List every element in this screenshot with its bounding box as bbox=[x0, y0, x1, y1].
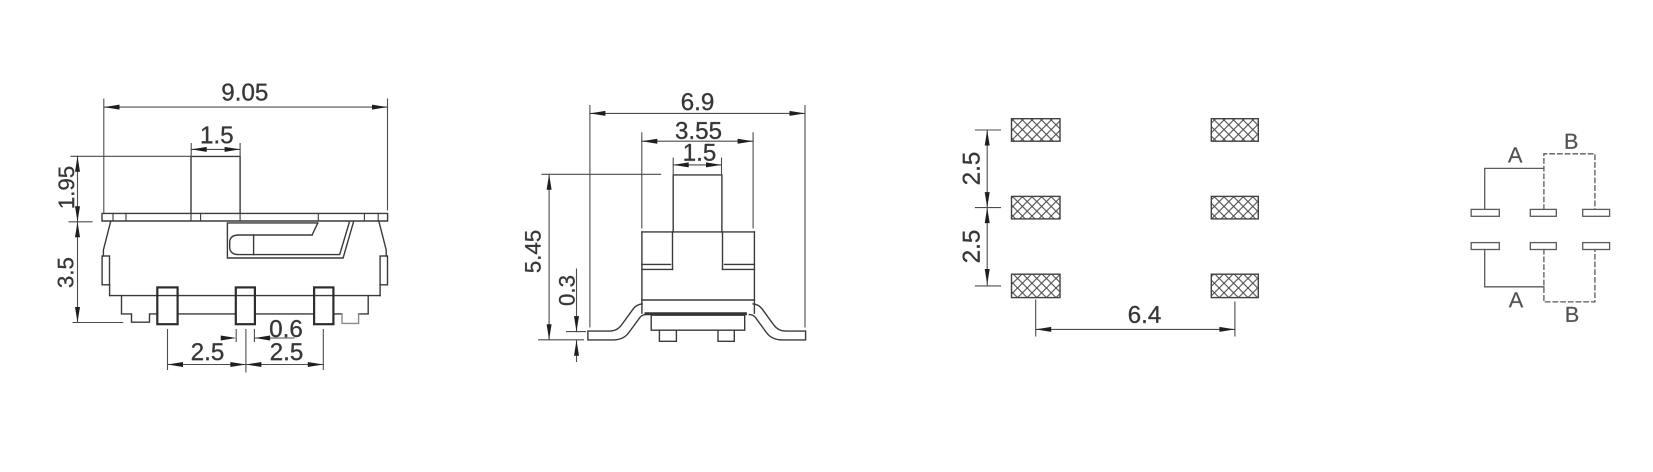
thick base line bbox=[646, 312, 745, 315]
body bottom line bbox=[110, 295, 381, 297]
dim 0.3 (vertical) bbox=[567, 269, 586, 362]
base block bbox=[651, 315, 745, 330]
base foot left bbox=[659, 330, 676, 341]
label B top bbox=[1566, 134, 1578, 149]
knob (front view actuator) bbox=[191, 156, 240, 213]
body top line bbox=[642, 231, 755, 233]
wire A bottom (solid) bbox=[1485, 250, 1544, 287]
knob continuation inside body bbox=[673, 232, 723, 270]
label B bottom bbox=[1567, 307, 1579, 322]
dim 2.5 right bbox=[246, 362, 323, 367]
base foot right bbox=[718, 330, 734, 341]
dim 2.5 left bbox=[168, 330, 324, 372]
terminal 5 (bottom-middle) bbox=[1530, 243, 1556, 250]
pad 5 (mid-right) bbox=[1211, 196, 1258, 219]
actuator slot window outer bbox=[227, 222, 353, 258]
dim 2.5 upper (vertical) bbox=[975, 130, 1000, 286]
dim 1.95 (vertical) bbox=[69, 156, 191, 222]
label A bottom bbox=[1509, 292, 1523, 307]
pin 1 bbox=[157, 287, 177, 324]
gull wing left bbox=[588, 304, 646, 340]
wire B bottom (dashed) bbox=[1544, 250, 1595, 302]
dim 6.9 bbox=[590, 106, 805, 327]
dim 3.55 bbox=[642, 133, 753, 228]
body right edge bbox=[379, 221, 388, 296]
terminal 6 (bottom-right) bbox=[1583, 243, 1610, 250]
dim 3.5 (vertical) bbox=[73, 222, 123, 323]
body sides bbox=[642, 232, 755, 313]
top flange bbox=[102, 213, 388, 221]
dim 0.6 bbox=[221, 330, 294, 342]
dim 1.5 (fig1) bbox=[191, 144, 240, 157]
wire B top (dashed) bbox=[1544, 154, 1595, 210]
pad 1 (top-left) bbox=[1012, 119, 1061, 142]
label A top bbox=[1508, 147, 1522, 162]
dim 5.45 (vertical) bbox=[539, 174, 661, 339]
knob (side view actuator) bbox=[673, 175, 722, 232]
dim 2.5 lower (vertical) bbox=[985, 208, 990, 285]
dim 1.5 (fig2) bbox=[673, 158, 721, 175]
ledge lines left bbox=[642, 264, 673, 269]
seam line bbox=[642, 299, 755, 301]
dim 6.4 bbox=[1036, 300, 1235, 336]
pin 3 bbox=[314, 287, 333, 324]
pad 4 (top-right) bbox=[1211, 119, 1258, 142]
base profile with feet bbox=[122, 296, 369, 323]
terminal 3 (top-right) bbox=[1583, 209, 1610, 216]
knob shaft line in slot bbox=[253, 235, 255, 255]
terminal 1 (top-left) bbox=[1471, 209, 1499, 216]
pad 6 (bottom-right) bbox=[1211, 274, 1258, 297]
pad 2 (mid-left) bbox=[1012, 196, 1061, 219]
body left edge bbox=[102, 221, 111, 296]
pin 2 bbox=[236, 287, 255, 324]
gull wing right bbox=[749, 304, 805, 340]
wire A top (solid) bbox=[1485, 168, 1544, 209]
actuator slot inner stadium bbox=[230, 222, 350, 254]
pad 3 (bottom-left) bbox=[1012, 274, 1061, 297]
right small foot (gray) bbox=[342, 314, 359, 324]
dim 9.05 bbox=[104, 99, 388, 213]
ledge lines right bbox=[723, 264, 755, 269]
terminal 2 (top-middle) bbox=[1530, 209, 1556, 216]
terminal 4 (bottom-left) bbox=[1471, 243, 1499, 250]
